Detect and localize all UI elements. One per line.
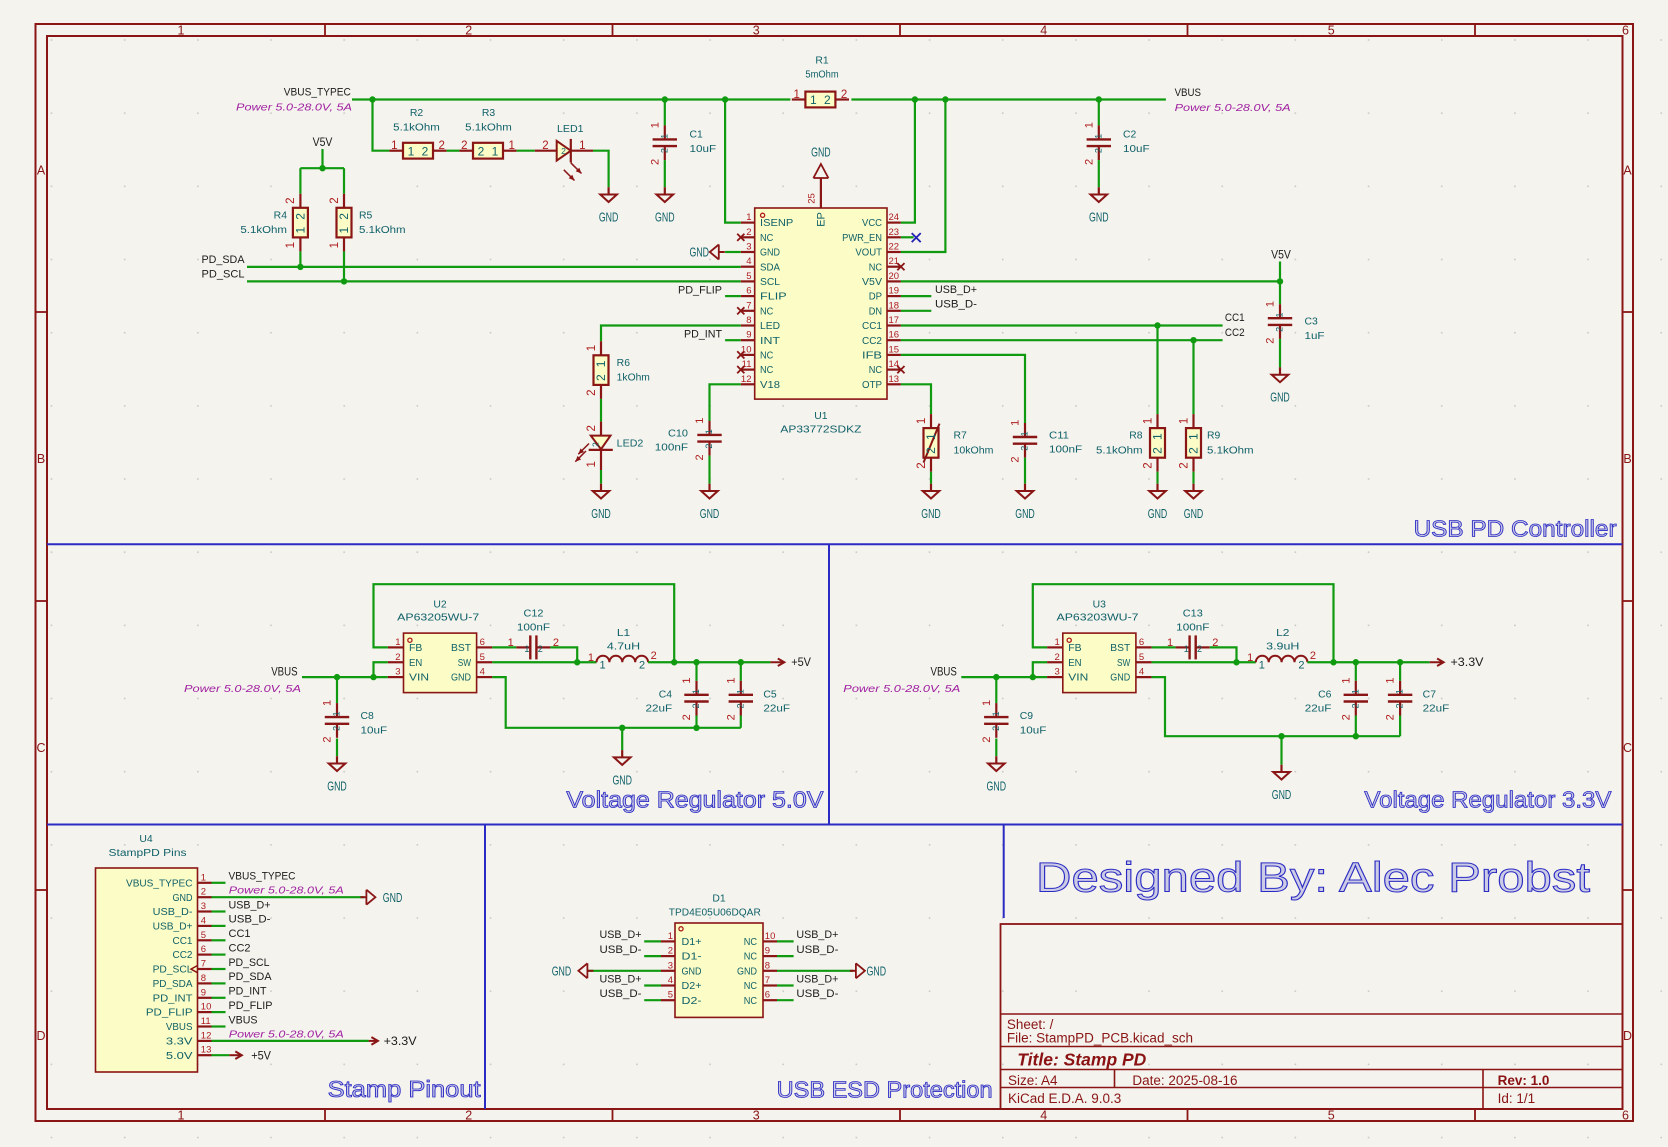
svg-text:11: 11	[201, 1016, 211, 1027]
wire VBUS rail right	[851, 98, 1166, 100]
svg-text:22uF: 22uF	[1305, 704, 1332, 715]
resistor R7	[916, 414, 994, 472]
svg-text:6: 6	[201, 944, 206, 955]
svg-text:1: 1	[810, 93, 817, 107]
svg-text:1: 1	[1385, 678, 1397, 684]
svg-text:4: 4	[1040, 1109, 1047, 1123]
junction CC1/R8	[1154, 322, 1160, 328]
svg-text:1: 1	[1259, 659, 1265, 671]
svg-text:C6: C6	[1318, 689, 1332, 700]
connector U4 StampPD Pins body	[96, 834, 198, 1072]
ground C1	[655, 187, 675, 224]
svg-text:R6: R6	[617, 358, 631, 369]
svg-text:USB_D+: USB_D+	[935, 284, 977, 296]
svg-text:CC2: CC2	[862, 336, 882, 347]
svg-text:EN: EN	[1068, 658, 1081, 669]
capacitor C5	[725, 678, 790, 721]
capacitor C1	[649, 122, 716, 165]
svg-text:U4: U4	[139, 834, 153, 845]
svg-text:8: 8	[746, 315, 751, 326]
wire R5 to PD_SCL	[343, 251, 345, 281]
wire V5V to C3	[1279, 281, 1281, 304]
svg-text:C1: C1	[690, 130, 704, 141]
wire VBUS to VIN	[302, 676, 388, 678]
no-connect flag PWR_EN	[912, 233, 921, 242]
capacitor C13	[1167, 608, 1218, 659]
svg-text:EP: EP	[816, 212, 828, 227]
svg-text:5.1kOhm: 5.1kOhm	[240, 225, 287, 236]
wire CC2 to R9	[1192, 340, 1194, 414]
wire OTP to R7	[901, 384, 931, 414]
svg-text:C7: C7	[1423, 689, 1437, 700]
wire cap to SW	[550, 647, 577, 662]
svg-text:10: 10	[765, 931, 776, 942]
svg-text:1: 1	[588, 652, 594, 664]
svg-text:PWR_EN: PWR_EN	[842, 233, 882, 244]
svg-text:6: 6	[765, 990, 770, 1001]
svg-text:1: 1	[1265, 301, 1277, 307]
svg-text:4.7uH: 4.7uH	[607, 641, 640, 652]
svg-text:1: 1	[746, 212, 751, 223]
capacitor C12	[508, 608, 559, 659]
junction Cout1 rail	[1353, 733, 1359, 739]
svg-text:2: 2	[1083, 159, 1095, 165]
svg-text:2: 2	[586, 425, 598, 431]
wire PD_SCL	[247, 280, 741, 282]
svg-text:1uF: 1uF	[1305, 331, 1325, 342]
svg-text:VIN: VIN	[1068, 673, 1088, 684]
svg-text:6: 6	[746, 286, 751, 297]
svg-text:PD_FLIP: PD_FLIP	[678, 284, 722, 296]
svg-text:GND: GND	[760, 248, 780, 259]
svg-text:D: D	[1623, 1029, 1632, 1043]
U4 pins 1-13	[126, 872, 212, 1062]
svg-text:1: 1	[916, 418, 928, 424]
power symbol +3.3V	[1430, 657, 1484, 669]
wire R9 to GND	[1192, 472, 1194, 484]
svg-text:2: 2	[1020, 446, 1030, 451]
svg-text:2: 2	[668, 946, 673, 957]
wire GND rail	[1152, 677, 1401, 736]
svg-text:+5V: +5V	[791, 657, 811, 669]
svg-text:USB_D-: USB_D-	[600, 988, 642, 1000]
wire D1 left pin2	[644, 955, 661, 957]
svg-text:10uF: 10uF	[690, 144, 717, 155]
wire PD_SDA	[247, 266, 741, 268]
U1 pin 25 EP	[807, 178, 828, 227]
svg-text:3: 3	[746, 242, 751, 253]
wire Cout2 to rail	[740, 716, 742, 728]
ground C3	[1270, 367, 1290, 404]
wire U4 pin7	[212, 968, 226, 970]
svg-text:2: 2	[735, 703, 745, 708]
svg-text:100nF: 100nF	[655, 443, 688, 454]
svg-text:1: 1	[1187, 433, 1201, 440]
svg-text:1: 1	[725, 678, 737, 684]
svg-text:SCL: SCL	[760, 277, 780, 288]
svg-text:2: 2	[841, 89, 847, 101]
svg-text:VBUS: VBUS	[271, 667, 298, 679]
svg-text:IFB: IFB	[862, 351, 882, 362]
svg-text:CC2: CC2	[173, 950, 193, 961]
wire FB loop	[374, 584, 675, 662]
resistor R3	[459, 108, 516, 159]
wire V5V to R4	[299, 168, 301, 194]
svg-text:19: 19	[889, 286, 900, 297]
svg-text:R2: R2	[410, 108, 424, 119]
svg-text:VBUS: VBUS	[166, 1022, 193, 1033]
wire D1 left pin5	[644, 999, 661, 1001]
svg-text:1: 1	[1178, 418, 1190, 424]
svg-text:2: 2	[1395, 703, 1405, 708]
svg-text:6: 6	[1622, 1109, 1629, 1123]
wire CC1	[901, 324, 1223, 326]
svg-text:SW: SW	[458, 658, 472, 669]
svg-text:5.1kOhm: 5.1kOhm	[359, 225, 406, 236]
svg-text:1: 1	[981, 700, 993, 706]
wire D1 GND left	[588, 970, 661, 972]
svg-text:2: 2	[561, 146, 566, 156]
wire GND pin3	[725, 251, 741, 253]
wire BST to cap	[492, 646, 516, 648]
svg-text:VBUS_TYPEC: VBUS_TYPEC	[126, 878, 193, 889]
wire R8 to GND	[1156, 472, 1158, 484]
svg-text:+5V: +5V	[251, 1050, 271, 1062]
wire U4 pin1	[212, 882, 226, 884]
svg-text:PD_INT: PD_INT	[153, 993, 193, 1004]
junction rail GND	[1278, 733, 1284, 739]
wire U4 pin10	[212, 1011, 226, 1013]
svg-text:Voltage Regulator 3.3V: Voltage Regulator 3.3V	[1364, 787, 1612, 813]
wire LED1 to GND	[593, 151, 609, 188]
svg-text:2: 2	[694, 454, 706, 460]
svg-text:2: 2	[691, 703, 701, 708]
svg-text:2: 2	[1055, 652, 1060, 663]
svg-text:1: 1	[594, 360, 608, 367]
svg-text:4: 4	[201, 915, 206, 926]
junction C out2	[738, 659, 744, 665]
svg-text:3: 3	[201, 901, 206, 912]
wire to Cout1	[1355, 662, 1357, 681]
svg-text:6: 6	[480, 637, 485, 648]
svg-text:2: 2	[1187, 447, 1201, 454]
svg-text:8: 8	[765, 960, 770, 971]
svg-text:1: 1	[1083, 122, 1095, 128]
svg-text:15: 15	[889, 344, 900, 355]
svg-text:2: 2	[991, 726, 1001, 731]
svg-text:USB_D-: USB_D-	[796, 988, 838, 1000]
svg-text:3: 3	[1055, 667, 1060, 678]
svg-text:2: 2	[395, 652, 400, 663]
svg-text:1kOhm: 1kOhm	[617, 373, 650, 384]
wire U4 pin8	[212, 982, 226, 984]
svg-text:2: 2	[746, 227, 751, 238]
svg-text:1: 1	[735, 689, 745, 694]
svg-text:13: 13	[201, 1045, 212, 1056]
svg-text:17: 17	[889, 315, 900, 326]
svg-text:PD_SCL: PD_SCL	[202, 269, 245, 281]
svg-text:GND: GND	[612, 773, 632, 787]
wire Cout2 to rail	[1399, 716, 1401, 737]
svg-text:2: 2	[538, 644, 543, 654]
wire U4 pin13	[212, 1054, 230, 1056]
svg-text:7: 7	[201, 959, 206, 970]
svg-text:2: 2	[1310, 650, 1316, 662]
svg-text:GND: GND	[1015, 507, 1035, 521]
svg-text:PD_INT: PD_INT	[684, 329, 722, 341]
svg-text:C3: C3	[1305, 317, 1319, 328]
wire SW	[1152, 661, 1256, 663]
svg-text:GND: GND	[655, 211, 675, 225]
junction FB/out	[1330, 659, 1336, 665]
svg-text:USB_D+: USB_D+	[600, 973, 642, 985]
resistor R8	[1096, 414, 1165, 472]
svg-text:LED2: LED2	[617, 438, 644, 449]
resistor R2	[389, 108, 446, 159]
U4 pin7 input indicator	[191, 966, 198, 973]
junction V5V	[319, 165, 325, 171]
svg-text:4: 4	[668, 975, 673, 986]
wire U4 pin3	[212, 910, 226, 912]
wire to C8	[336, 677, 338, 703]
svg-text:6: 6	[1622, 24, 1629, 38]
svg-text:CC1: CC1	[862, 321, 882, 332]
svg-text:PD_FLIP: PD_FLIP	[146, 1008, 193, 1019]
svg-text:2: 2	[478, 144, 485, 158]
svg-text:C: C	[36, 741, 45, 755]
svg-text:2: 2	[649, 159, 661, 165]
wire GND rail	[492, 677, 741, 728]
svg-text:10uF: 10uF	[1123, 144, 1150, 155]
svg-text:1: 1	[991, 711, 1001, 716]
capacitor C9	[981, 700, 1047, 743]
svg-text:20: 20	[889, 271, 900, 282]
svg-text:1: 1	[1275, 312, 1285, 317]
wire rail to GND	[1280, 736, 1282, 765]
svg-text:1: 1	[1055, 637, 1060, 648]
wire EN branch	[1033, 662, 1047, 677]
svg-text:R4: R4	[274, 210, 288, 221]
svg-text:NC: NC	[744, 952, 757, 963]
svg-text:6: 6	[1139, 637, 1144, 648]
svg-text:EN: EN	[409, 658, 422, 669]
svg-text:5: 5	[1328, 24, 1335, 38]
svg-text:2: 2	[1275, 327, 1285, 332]
svg-text:1: 1	[1395, 689, 1405, 694]
wire R2-R3	[447, 150, 460, 152]
svg-text:12: 12	[741, 374, 752, 385]
ground C8	[327, 756, 347, 793]
svg-text:3: 3	[395, 667, 400, 678]
svg-text:1: 1	[1350, 689, 1360, 694]
wire PD_INT	[725, 339, 741, 341]
wire D1 left pin4	[644, 984, 661, 986]
svg-text:USB PD Controller: USB PD Controller	[1414, 516, 1617, 542]
svg-text:2: 2	[1151, 447, 1165, 454]
ground label D1 GND right	[850, 963, 886, 978]
svg-text:2: 2	[1178, 462, 1190, 468]
wire FB loop	[1033, 584, 1334, 662]
svg-text:1: 1	[694, 418, 706, 424]
wire L out	[1307, 661, 1429, 663]
svg-text:8: 8	[201, 973, 206, 984]
svg-text:GND: GND	[1110, 673, 1130, 684]
svg-text:3: 3	[753, 24, 760, 38]
wire VBUS to ISENP	[725, 100, 741, 223]
resistor R9	[1178, 414, 1253, 472]
ground C9	[987, 756, 1007, 793]
svg-text:VBUS: VBUS	[1175, 87, 1201, 99]
svg-text:2: 2	[591, 442, 601, 447]
junction Cin	[334, 674, 340, 680]
LED LED2	[575, 422, 643, 470]
svg-text:CC1: CC1	[173, 936, 193, 947]
svg-text:BST: BST	[1110, 643, 1130, 654]
svg-text:2: 2	[1010, 456, 1022, 462]
svg-text:USB_D-: USB_D-	[600, 944, 642, 956]
svg-text:2: 2	[1197, 644, 1202, 654]
svg-text:10uF: 10uF	[1020, 725, 1047, 736]
svg-text:INT: INT	[760, 336, 780, 347]
ground rail	[612, 750, 632, 787]
svg-text:VBUS_TYPEC: VBUS_TYPEC	[284, 87, 351, 99]
svg-text:GND: GND	[867, 964, 887, 978]
svg-text:2: 2	[1385, 714, 1397, 720]
section divider lines	[47, 544, 1623, 1109]
svg-text:5: 5	[1139, 652, 1144, 663]
svg-text:2: 2	[332, 726, 342, 731]
svg-text:2: 2	[1298, 659, 1304, 671]
ground label pin3 GND	[690, 245, 725, 260]
capacitor C2	[1083, 122, 1149, 165]
svg-text:C4: C4	[659, 689, 673, 700]
svg-text:GND: GND	[327, 780, 347, 794]
svg-text:B: B	[37, 452, 45, 466]
svg-text:NC: NC	[744, 981, 757, 992]
svg-text:5: 5	[201, 930, 206, 941]
svg-text:NC: NC	[760, 306, 773, 317]
svg-text:2: 2	[542, 140, 548, 152]
svg-text:VIN: VIN	[409, 673, 429, 684]
svg-text:D1+: D1+	[682, 937, 702, 948]
U1 pins right 24-13	[842, 212, 904, 391]
svg-text:C12: C12	[524, 608, 544, 619]
wire R6 to LED2	[600, 399, 602, 422]
svg-text:GND: GND	[811, 146, 831, 160]
svg-text:1: 1	[395, 637, 400, 648]
power symbol +5V	[229, 1050, 271, 1062]
svg-text:1: 1	[1142, 418, 1154, 424]
wire R3-LED1	[517, 150, 535, 152]
svg-text:D2+: D2+	[682, 981, 702, 992]
svg-text:1: 1	[178, 1109, 185, 1123]
svg-text:NC: NC	[744, 937, 757, 948]
svg-text:1: 1	[1247, 652, 1253, 664]
svg-text:1: 1	[691, 689, 701, 694]
svg-text:Id: 1/1: Id: 1/1	[1498, 1091, 1536, 1106]
U3 pins	[1047, 637, 1152, 684]
svg-text:Power 5.0-28.0V, 5A: Power 5.0-28.0V, 5A	[236, 101, 352, 113]
junction Cout1 rail	[693, 725, 699, 731]
ground C10	[700, 484, 720, 521]
svg-text:U3: U3	[1093, 600, 1107, 611]
wire to C1	[664, 100, 666, 126]
svg-text:3: 3	[753, 1109, 760, 1123]
svg-text:GND: GND	[737, 966, 757, 977]
svg-text:2: 2	[594, 374, 608, 381]
junction EN/VIN	[370, 674, 376, 680]
svg-text:GND: GND	[921, 507, 941, 521]
wire U4 pin6	[212, 953, 226, 955]
resistor R5	[329, 194, 406, 252]
svg-text:1: 1	[681, 678, 693, 684]
svg-text:5.1kOhm: 5.1kOhm	[393, 122, 440, 133]
svg-text:23: 23	[889, 227, 900, 238]
svg-text:AP33772SDKZ: AP33772SDKZ	[780, 425, 861, 436]
svg-text:1: 1	[924, 433, 938, 440]
svg-text:Designed By: Alec Probst: Designed By: Alec Probst	[1036, 854, 1590, 901]
svg-text:VBUS: VBUS	[229, 1014, 258, 1026]
svg-text:4: 4	[1139, 667, 1144, 678]
svg-text:PD_INT: PD_INT	[229, 986, 267, 998]
svg-text:100nF: 100nF	[517, 623, 550, 634]
svg-text:PD_SDA: PD_SDA	[229, 971, 273, 983]
wire D1 right pin9	[777, 955, 794, 957]
svg-text:1: 1	[599, 659, 605, 671]
svg-text:PD_SCL: PD_SCL	[229, 957, 270, 969]
svg-text:USB_D+: USB_D+	[153, 922, 193, 933]
junction VOUT	[942, 96, 948, 102]
svg-text:3: 3	[668, 960, 673, 971]
svg-text:1: 1	[668, 931, 673, 942]
svg-text:NC: NC	[760, 365, 773, 376]
regulator IC U2 AP63205WU-7	[397, 600, 480, 693]
wire to C9	[995, 677, 997, 703]
svg-text:2: 2	[659, 148, 669, 153]
svg-text:2: 2	[1265, 338, 1277, 344]
svg-text:CC2: CC2	[229, 942, 251, 954]
wire LED2 to GND	[600, 470, 602, 484]
wire PWR_EN stub	[901, 236, 914, 238]
svg-text:USB_D+: USB_D+	[796, 929, 838, 941]
svg-text:10uF: 10uF	[361, 725, 388, 736]
svg-text:2: 2	[651, 650, 657, 662]
wire to Cout1	[695, 662, 697, 681]
ground label U4 GND	[360, 890, 402, 905]
svg-text:V5V: V5V	[862, 277, 882, 288]
svg-text:DN: DN	[869, 306, 882, 317]
svg-text:18: 18	[889, 300, 900, 311]
svg-text:Rev: 1.0: Rev: 1.0	[1498, 1073, 1550, 1088]
svg-text:GND: GND	[173, 893, 193, 904]
junction R4/PD_SDA	[297, 264, 303, 270]
svg-text:SW: SW	[1117, 658, 1131, 669]
junction BST/SW	[1233, 659, 1239, 665]
svg-text:OTP: OTP	[862, 380, 882, 391]
svg-text:2: 2	[1093, 148, 1103, 153]
svg-text:1: 1	[322, 700, 334, 706]
svg-text:V18: V18	[760, 380, 780, 391]
svg-text:2: 2	[294, 213, 308, 220]
svg-text:GND: GND	[690, 246, 710, 260]
wire C1 to GND	[664, 160, 666, 187]
svg-text:1: 1	[332, 711, 342, 716]
svg-text:14: 14	[889, 359, 900, 370]
svg-text:R8: R8	[1129, 431, 1143, 442]
capacitor C8	[322, 700, 388, 743]
svg-text:10kOhm: 10kOhm	[954, 446, 994, 457]
svg-text:1: 1	[509, 140, 515, 152]
